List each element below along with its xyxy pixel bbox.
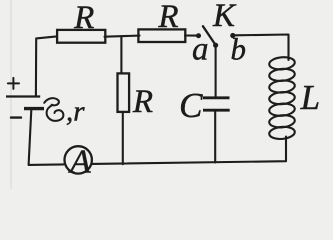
svg-text:L: L [300,78,320,117]
wire middle branch bottom (vertical R to bottom rail) [122,113,124,165]
capacitor C bottom plate [203,109,230,112]
battery positive plate (long) [6,95,40,97]
resistor R2 (top middle) [138,29,185,42]
svg-text:,r: ,r [66,95,85,127]
svg-text:R: R [132,84,153,120]
capacitor C top plate [203,96,230,99]
switch contact b dot [230,33,235,38]
label EMF script E [44,98,63,121]
wire from capacitor to bottom rail [214,111,216,162]
switch K lever [203,26,216,45]
wire from R2 to switch contact a [185,34,196,36]
wire between R1 and R2 [105,36,140,37]
wire from switch pivot down to capacitor [215,46,217,97]
resistor R3 (middle vertical) [118,73,130,112]
wire battery negative down to bottom-left corner [29,110,64,165]
wire left vertical from top rail to battery [36,36,57,96]
scan edge artifact [10,0,12,189]
svg-text:b: b [230,32,246,67]
svg-text:K: K [212,0,237,34]
svg-text:R: R [157,0,178,35]
wire middle branch top (node between R1 and R2 down to vertical R) [120,37,122,73]
svg-text:A: A [68,144,91,181]
resistor R1 (top left) [57,30,105,43]
battery negative plate (short thick) [24,107,44,110]
svg-text:R: R [73,0,94,36]
svg-text:C: C [179,86,203,125]
inductor L coil [269,56,296,140]
svg-text:a: a [192,32,209,68]
minus sign [11,116,21,118]
switch pivot dot [213,43,218,48]
wire from switch contact b to top-right corner and down to coil [235,35,288,61]
switch contact a dot [196,33,201,38]
ammeter A circle [65,146,92,173]
plus sign [8,78,19,89]
wire bottom rail from ammeter to right corner and up to coil [93,137,286,164]
